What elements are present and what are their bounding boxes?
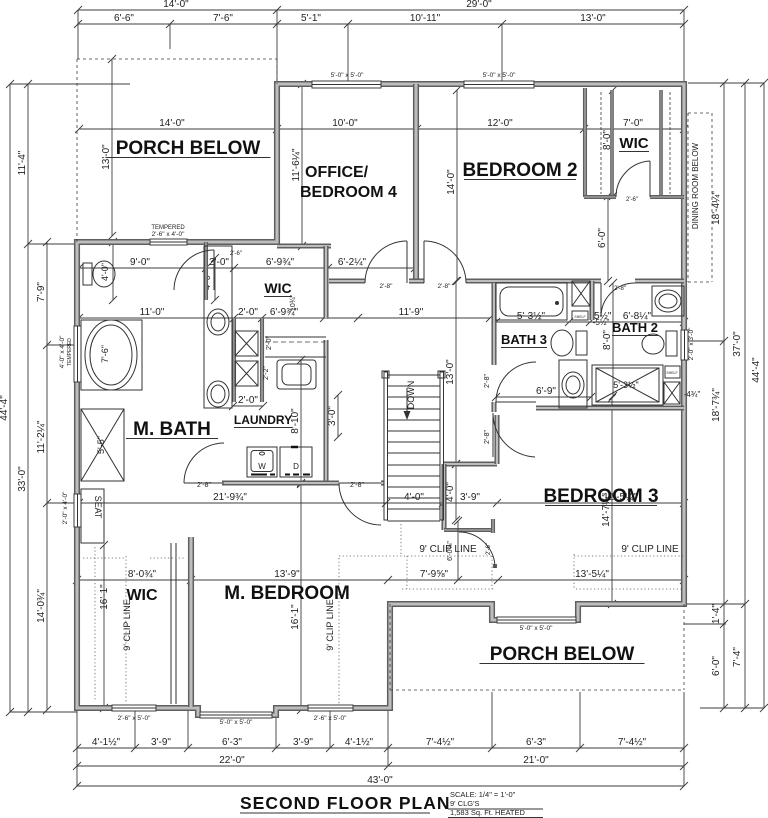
svg-text:3'-9": 3'-9" — [151, 737, 171, 748]
svg-text:2'-0": 2'-0" — [238, 395, 258, 406]
svg-text:2'-2": 2'-2" — [263, 366, 270, 380]
svg-text:SHELF: SHELF — [574, 315, 585, 319]
svg-text:13'-9": 13'-9" — [274, 569, 300, 580]
svg-text:M. BATH: M. BATH — [133, 419, 211, 440]
svg-text:3'-0": 3'-0" — [327, 406, 338, 426]
svg-text:6'-0": 6'-0" — [597, 228, 608, 248]
svg-text:SECOND FLOOR PLAN: SECOND FLOOR PLAN — [240, 793, 450, 813]
svg-text:1'-4": 1'-4" — [711, 604, 722, 624]
svg-text:2'-6" x 4'-0": 2'-6" x 4'-0" — [152, 231, 185, 238]
svg-text:21'-9¾": 21'-9¾" — [213, 492, 247, 503]
svg-text:5'-3½": 5'-3½" — [613, 380, 638, 390]
svg-text:6'-3": 6'-3" — [526, 737, 546, 748]
svg-text:BEDROOM 3: BEDROOM 3 — [543, 486, 658, 507]
svg-text:7'-4": 7'-4" — [732, 647, 743, 667]
svg-text:7'-9": 7'-9" — [36, 282, 47, 302]
svg-text:44'-4": 44'-4" — [0, 395, 10, 421]
svg-text:10'-0": 10'-0" — [332, 118, 358, 129]
svg-text:13'-0": 13'-0" — [445, 359, 456, 385]
svg-text:5'-0" x 5'-0": 5'-0" x 5'-0" — [220, 719, 253, 726]
svg-text:29'-0": 29'-0" — [466, 0, 492, 10]
svg-text:D: D — [293, 462, 299, 471]
svg-text:2'-8": 2'-8" — [484, 374, 491, 388]
svg-text:WIC: WIC — [619, 135, 648, 152]
svg-text:W: W — [258, 462, 266, 471]
svg-text:2'-6" x 5'-0": 2'-6" x 5'-0" — [314, 715, 347, 722]
svg-text:7'-4½": 7'-4½" — [618, 737, 647, 748]
svg-text:SEAT: SEAT — [93, 496, 103, 519]
svg-text:37'-0": 37'-0" — [732, 331, 743, 357]
svg-text:6'-0": 6'-0" — [711, 656, 722, 676]
svg-text:BATH 2: BATH 2 — [612, 320, 658, 335]
svg-text:8'-0¾": 8'-0¾" — [128, 569, 157, 580]
svg-text:2'-8": 2'-8" — [484, 430, 491, 444]
svg-text:BATH 3: BATH 3 — [501, 332, 547, 347]
svg-text:7'-4½": 7'-4½" — [426, 737, 455, 748]
svg-text:SHELF: SHELF — [666, 371, 677, 375]
svg-text:9' CLIP LINE: 9' CLIP LINE — [325, 599, 335, 651]
svg-text:2'-8": 2'-8" — [350, 482, 364, 489]
svg-text:7'-6": 7'-6" — [100, 345, 110, 363]
svg-text:11'-0": 11'-0" — [140, 307, 165, 318]
svg-text:5'-0" x 5'-0": 5'-0" x 5'-0" — [520, 625, 553, 632]
svg-text:2'-8": 2'-8" — [438, 283, 452, 290]
svg-text:11'-6¼": 11'-6¼" — [290, 148, 302, 182]
svg-text:22'-0": 22'-0" — [219, 755, 245, 766]
svg-text:2'-6": 2'-6" — [486, 543, 492, 555]
svg-text:2'-0": 2'-0" — [209, 257, 229, 268]
svg-text:4'-1½": 4'-1½" — [345, 737, 374, 748]
svg-text:18'-7¾": 18'-7¾" — [711, 388, 722, 422]
svg-text:PORCH BELOW: PORCH BELOW — [490, 644, 635, 665]
svg-text:13'-0": 13'-0" — [580, 13, 606, 24]
svg-text:14'-0": 14'-0" — [163, 0, 189, 10]
svg-text:44'-4": 44'-4" — [751, 357, 762, 383]
svg-text:5'-0" x 5'-0": 5'-0" x 5'-0" — [483, 72, 516, 79]
svg-text:13'-0": 13'-0" — [101, 144, 112, 170]
svg-text:12'-0": 12'-0" — [487, 118, 513, 129]
svg-text:33'-0": 33'-0" — [17, 466, 28, 492]
svg-text:13'-5¼": 13'-5¼" — [575, 568, 609, 580]
svg-text:6'-9¾": 6'-9¾" — [266, 257, 295, 268]
svg-text:21'-0": 21'-0" — [523, 755, 549, 766]
svg-text:DINING ROOM BELOW: DINING ROOM BELOW — [691, 142, 700, 229]
svg-text:6'-2¼": 6'-2¼" — [338, 256, 367, 268]
svg-text:OFFICE/: OFFICE/ — [305, 164, 369, 181]
svg-text:2'-0": 2'-0" — [266, 336, 273, 350]
svg-text:4'-0": 4'-0" — [100, 263, 110, 281]
svg-text:PORCH BELOW: PORCH BELOW — [116, 138, 261, 159]
svg-text:2'-6": 2'-6" — [230, 251, 242, 257]
svg-text:16'-1": 16'-1" — [99, 584, 110, 610]
svg-text:9'-0": 9'-0" — [130, 257, 150, 268]
svg-text:TEMPERED: TEMPERED — [67, 338, 73, 366]
svg-text:18'-4¼": 18'-4¼" — [710, 191, 722, 225]
svg-text:3'-9": 3'-9" — [460, 492, 480, 503]
svg-text:14'-0": 14'-0" — [159, 118, 185, 129]
svg-text:6'-0⅞": 6'-0⅞" — [447, 541, 454, 561]
svg-text:16'-1": 16'-1" — [290, 604, 301, 630]
svg-text:3'-9": 3'-9" — [293, 737, 313, 748]
svg-text:7'-9⅝": 7'-9⅝" — [420, 569, 449, 580]
svg-text:2'-8": 2'-8" — [197, 482, 211, 489]
svg-text:-4¾": -4¾" — [684, 390, 701, 399]
svg-text:43'-0": 43'-0" — [367, 775, 393, 786]
svg-text:9' CLIP LINE: 9' CLIP LINE — [621, 544, 679, 555]
svg-text:2'-6": 2'-6" — [626, 197, 638, 203]
svg-text:5'-0" x 5'-0": 5'-0" x 5'-0" — [331, 72, 364, 79]
svg-text:6'-3": 6'-3" — [222, 737, 242, 748]
svg-text:6'-6": 6'-6" — [114, 13, 134, 24]
svg-text:10'-11": 10'-11" — [410, 13, 441, 24]
svg-text:5'-1": 5'-1" — [301, 13, 321, 24]
svg-text:7'-6": 7'-6" — [213, 13, 233, 24]
svg-text:6'-9": 6'-9" — [536, 386, 556, 397]
svg-text:WIC: WIC — [264, 280, 291, 296]
svg-text:14'-0": 14'-0" — [446, 169, 457, 195]
svg-text:2'-8": 2'-8" — [614, 286, 626, 292]
svg-text:9' CLIP LINE: 9' CLIP LINE — [122, 599, 132, 651]
svg-text:5'-5": 5'-5" — [96, 436, 106, 454]
svg-text:11'-2¼": 11'-2¼" — [35, 420, 47, 454]
svg-text:-5½": -5½" — [593, 318, 610, 327]
svg-text:11'-9": 11'-9" — [399, 307, 424, 318]
svg-text:BEDROOM 4: BEDROOM 4 — [300, 184, 397, 201]
svg-text:2'-0": 2'-0" — [238, 307, 258, 318]
svg-text:BEDROOM 2: BEDROOM 2 — [462, 160, 577, 181]
svg-text:2'-0" x 4'-0": 2'-0" x 4'-0" — [62, 491, 69, 524]
svg-text:4'-1½": 4'-1½" — [92, 737, 121, 748]
svg-text:2'-8": 2'-8" — [380, 283, 394, 290]
svg-text:14'-0¾": 14'-0¾" — [36, 589, 47, 623]
svg-text:SCALE: 1/4" = 1'-0": SCALE: 1/4" = 1'-0" — [450, 790, 516, 799]
svg-text:9' CLG'S: 9' CLG'S — [450, 799, 480, 808]
svg-text:7'-0": 7'-0" — [623, 118, 643, 129]
svg-text:4'-0" x 4'-0": 4'-0" x 4'-0" — [59, 335, 66, 368]
svg-text:LAUNDRY: LAUNDRY — [234, 413, 292, 427]
svg-text:4'-0": 4'-0" — [445, 482, 456, 502]
svg-text:11'-4": 11'-4" — [17, 150, 28, 175]
svg-text:2'-0" x 3'-0": 2'-0" x 3'-0" — [688, 327, 695, 360]
svg-text:2'-6" x 5'-0": 2'-6" x 5'-0" — [118, 715, 151, 722]
